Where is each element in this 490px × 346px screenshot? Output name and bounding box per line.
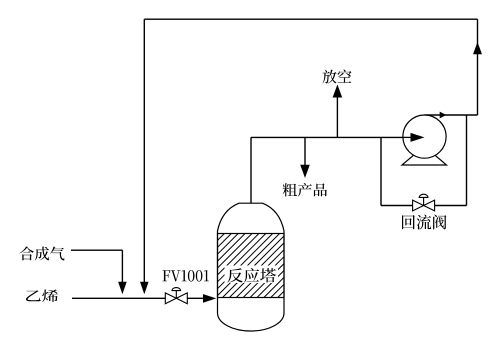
wire: reflux loop right vertical (466, 115, 468, 206)
pump P1: inlet line into center (403, 136, 412, 138)
label: 合成气 (syngas) (20, 247, 65, 261)
arrow: up arrow on riser (473, 42, 482, 54)
valve 回流阀: stem (423, 197, 425, 205)
arrow: syngas drop down arrow (118, 282, 127, 295)
arrow: vent up arrow (333, 85, 343, 98)
wire: recycle left downcomer to feed line (143, 19, 145, 282)
wire: syngas feed horizontal (71, 249, 122, 251)
valve FV1001: actuator cap (172, 288, 181, 291)
wire: tower top pipe (250, 137, 252, 205)
label: 乙烯 (ethylene) (26, 290, 58, 303)
wire: syngas feed drop (121, 250, 123, 282)
pump P1: casing circle (403, 115, 446, 158)
valve FV1001: bowtie body (165, 293, 187, 304)
wire: riser from pump outlet to top run (477, 19, 479, 115)
label: FV1001 (163, 270, 210, 282)
wire: pump outlet horizontal (425, 114, 478, 116)
wire: reflux loop bottom left segment (381, 205, 413, 207)
wire: overhead main line from tower to pump (251, 136, 404, 138)
vessel: catalyst bed outline (218, 234, 285, 298)
vessel: label background (225, 266, 279, 284)
valve 回流阀: actuator cap (419, 194, 428, 197)
label: 反应塔 (reaction tower) (228, 268, 277, 283)
wire: ethylene feed line to valve (72, 297, 165, 299)
wire: recycle top horizontal run (144, 18, 477, 20)
wire: crude product drop line (304, 137, 306, 165)
arrow: tower feed solid arrow (203, 294, 216, 303)
arrow: crude product down arrow (300, 165, 310, 178)
wire: reflux loop left vertical (380, 137, 382, 205)
vessel: reaction tower body (218, 203, 285, 331)
wire: vent line (336, 97, 338, 137)
pump P1: base (402, 146, 447, 165)
valve FV1001: stem (175, 291, 177, 299)
arrow: small right arrow on pump outlet (440, 112, 447, 119)
label: 粗产品 (crude product) (283, 183, 328, 197)
wire: reflux loop bottom right segment (435, 205, 467, 207)
label: 放空 (vent) (323, 70, 352, 84)
wire: valve outlet to tower feed arrow (187, 297, 204, 299)
vessel: catalyst bed hatch (218, 234, 285, 298)
valve 回流阀: bowtie body (413, 200, 435, 211)
pump P1: inlet arrow at impeller center (411, 133, 425, 142)
label: 回流阀 (reflux valve) (402, 215, 447, 230)
arrow: recycle downcomer down arrow (140, 282, 149, 295)
